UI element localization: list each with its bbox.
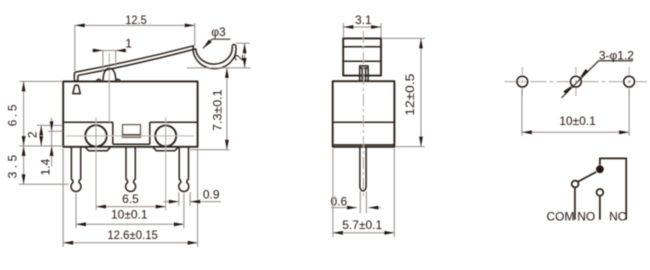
right pin bbox=[179, 147, 189, 192]
dimension 0.6 bbox=[331, 192, 381, 214]
valley walls and floor bbox=[113, 122, 150, 144]
leader phi3 bbox=[203, 39, 231, 48]
svg-text:2: 2 bbox=[232, 54, 246, 61]
hole 3 bbox=[624, 76, 635, 87]
cap line 1 bbox=[343, 46, 381, 48]
left mounting hole circle bbox=[85, 125, 106, 146]
lever arm outer edge bbox=[74, 46, 236, 80]
cap line 2 bbox=[343, 60, 381, 62]
plunger bbox=[360, 66, 368, 81]
top bump right bbox=[116, 79, 120, 81]
dimension 1 bbox=[91, 51, 127, 72]
pcb centerline horizontal bbox=[505, 81, 648, 83]
NO contact circle bbox=[597, 189, 604, 196]
svg-text:0.9: 0.9 bbox=[203, 188, 220, 202]
svg-text:7.3±0.1: 7.3±0.1 bbox=[211, 89, 225, 131]
svg-text:12.5: 12.5 bbox=[125, 13, 147, 27]
svg-text:12.6±0.15: 12.6±0.15 bbox=[107, 228, 158, 242]
dimension 12.5 bbox=[75, 23, 195, 71]
bell detail inside body bbox=[73, 85, 81, 94]
switch blade wire bbox=[578, 172, 597, 182]
svg-text:φ3: φ3 bbox=[211, 25, 226, 39]
svg-text:10±0.1: 10±0.1 bbox=[111, 208, 148, 222]
dimension 6.5 left bbox=[19, 81, 63, 146]
svg-text:COM: COM bbox=[547, 209, 575, 223]
dimension 12±0.5 bbox=[382, 38, 425, 146]
svg-text:NO: NO bbox=[577, 209, 595, 223]
svg-text:NC: NC bbox=[609, 209, 627, 223]
svg-text:1.4: 1.4 bbox=[38, 158, 52, 175]
terminal pocket rect bbox=[123, 125, 141, 138]
right bottom lobe bbox=[153, 147, 179, 151]
crosshair hole 1 bbox=[521, 67, 523, 96]
dimension 2 at lever tip bbox=[187, 43, 251, 68]
plunger dome bbox=[103, 68, 116, 81]
leader 3-phi1.2 bbox=[562, 61, 634, 98]
svg-text:3.1: 3.1 bbox=[355, 13, 372, 27]
hole 2 bbox=[571, 76, 582, 87]
top bump left bbox=[97, 79, 101, 81]
pocket divider bbox=[123, 134, 141, 136]
left bottom lobe bbox=[85, 147, 111, 151]
crosshair hole 3 bbox=[628, 67, 630, 96]
dimension 5.7±0.1 bbox=[333, 149, 394, 238]
wire dot to NC bbox=[600, 158, 626, 219]
dimension 10±0.1 bottom bbox=[76, 193, 184, 228]
hole 1 bbox=[517, 76, 528, 87]
right mounting hole circle bbox=[155, 125, 176, 146]
svg-text:6.5: 6.5 bbox=[122, 192, 139, 206]
front pin bbox=[360, 147, 366, 191]
svg-text:10±0.1: 10±0.1 bbox=[559, 114, 596, 128]
step line left bbox=[63, 121, 113, 123]
dimension 7.3±0.1 bbox=[190, 68, 230, 150]
front body bbox=[333, 81, 395, 147]
vertical centerline right hole bbox=[165, 118, 167, 211]
dimension 3.1 bbox=[343, 23, 381, 38]
dome centerline bbox=[108, 53, 110, 122]
wire NO bbox=[599, 196, 601, 220]
horizontal centerline through holes bbox=[66, 135, 194, 137]
cap (lever end view) bbox=[343, 38, 381, 75]
svg-text:3-φ1.2: 3-φ1.2 bbox=[599, 48, 634, 62]
body parting line lower bbox=[333, 144, 395, 146]
left pin bbox=[71, 147, 81, 192]
vertical centerline left hole bbox=[95, 118, 97, 211]
lever foot round bbox=[74, 79, 78, 81]
svg-text:12±0.5: 12±0.5 bbox=[403, 73, 417, 115]
dimension 6.5 bottom bbox=[96, 206, 166, 208]
dimension 12.6±0.15 bottom bbox=[63, 149, 197, 247]
dimension 10±0.1 pcb bbox=[522, 89, 629, 136]
dimension 3.5 left bbox=[19, 146, 69, 184]
dimension 0.9 bbox=[164, 192, 221, 206]
dimension 1.4 left bbox=[48, 118, 63, 167]
wire COM bbox=[574, 187, 576, 219]
COM contact circle bbox=[572, 181, 579, 188]
svg-text:1: 1 bbox=[125, 37, 132, 51]
switch body outline bbox=[63, 81, 197, 146]
lever arm inner edge bbox=[78, 46, 232, 79]
step line right bbox=[150, 121, 198, 123]
svg-text:6.5: 6.5 bbox=[6, 104, 20, 126]
lever tip cap bbox=[232, 44, 236, 46]
svg-text:3.5: 3.5 bbox=[6, 155, 20, 179]
body parting line upper bbox=[333, 121, 395, 123]
svg-text:2: 2 bbox=[26, 131, 40, 138]
svg-text:5.7±0.1: 5.7±0.1 bbox=[342, 218, 382, 232]
front centerline bbox=[362, 31, 364, 196]
NC contact dot bbox=[596, 165, 604, 173]
dimension 2 left bbox=[37, 125, 63, 146]
middle pin bbox=[126, 147, 136, 192]
crosshair hole 2 bbox=[575, 67, 577, 96]
